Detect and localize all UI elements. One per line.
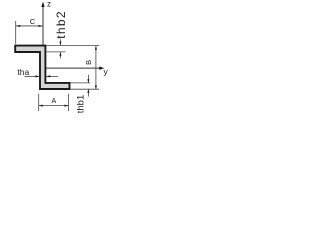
svg-text:thb2: thb2 — [54, 10, 68, 39]
svg-text:A: A — [52, 98, 57, 105]
svg-text:B: B — [84, 60, 93, 65]
svg-text:C: C — [30, 17, 36, 26]
svg-text:thb1: thb1 — [76, 95, 87, 114]
svg-text:tha: tha — [17, 67, 29, 77]
svg-text:z: z — [47, 0, 51, 8]
